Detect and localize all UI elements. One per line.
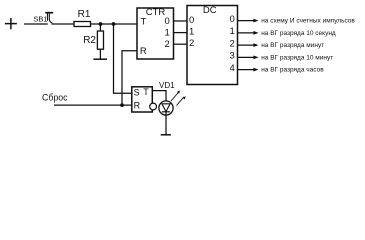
resistor R2: [97, 31, 103, 49]
LED VD1: [159, 101, 173, 115]
net label to VG of 10 seconds digit: [261, 30, 336, 37]
label T of trigger: [143, 87, 149, 97]
wire junction down to trigger S input: [114, 24, 133, 93]
net label to VG of hours digit: [261, 67, 324, 74]
svg-text:CTR: CTR: [146, 7, 166, 18]
svg-text:на схему И счетных импульсов: на схему И счетных импульсов: [261, 18, 355, 25]
wire R1 to CTR T input: [91, 23, 138, 25]
pin T label: [141, 17, 147, 28]
counter CTR block: [137, 8, 174, 59]
decoder DC block: [187, 6, 238, 85]
label CTR: [146, 7, 166, 18]
svg-text:2: 2: [230, 38, 235, 49]
net label to VG of minutes digit: [261, 42, 324, 49]
svg-text:3: 3: [230, 51, 235, 62]
output arrow 4: [238, 68, 259, 72]
power + terminal: [5, 18, 17, 29]
switch SB1: [45, 13, 53, 23]
svg-text:S: S: [134, 88, 140, 98]
svg-text:Сброс: Сброс: [42, 92, 68, 102]
svg-text:R: R: [134, 101, 141, 111]
junction node on reset line: [120, 103, 124, 107]
svg-text:T: T: [143, 87, 149, 97]
svg-text:DC: DC: [203, 5, 217, 16]
svg-text:R1: R1: [78, 9, 91, 20]
wire junction to R2: [99, 24, 101, 31]
svg-text:2: 2: [165, 39, 170, 50]
wire SB1 to R1: [52, 23, 75, 25]
svg-text:2: 2: [189, 38, 194, 49]
svg-text:на ВГ разряда минут: на ВГ разряда минут: [261, 42, 324, 49]
svg-text:0: 0: [165, 16, 170, 27]
svg-text:SB1: SB1: [33, 14, 47, 23]
resistor R1: [74, 22, 91, 27]
LED emission arrow 2: [177, 96, 186, 105]
label R2: [83, 35, 96, 46]
ground bar under R2: [93, 58, 107, 60]
svg-text:1: 1: [230, 26, 235, 37]
net Сброс wire: [54, 104, 132, 106]
wire R2 to ground: [99, 49, 101, 59]
output arrow 1: [238, 31, 259, 35]
svg-text:R: R: [140, 46, 147, 57]
junction node at trigger branch: [112, 22, 116, 26]
svg-text:4: 4: [230, 63, 235, 74]
label DC: [203, 5, 217, 16]
wire CTR out2 to DC in2: [174, 43, 188, 45]
wire CTR out1 to DC in1: [174, 32, 188, 34]
trigger T flip-flop block: [132, 87, 153, 112]
net label to VG of 10 minutes digit: [261, 54, 333, 61]
ground bar under LED: [161, 134, 171, 136]
wire trigger output to LED: [152, 91, 166, 104]
output arrow 0: [238, 19, 259, 23]
wire from + to SB1: [24, 23, 48, 25]
pin S label: [134, 88, 140, 98]
svg-text:1: 1: [165, 27, 170, 38]
svg-text:на ВГ разряда 10 минут: на ВГ разряда 10 минут: [261, 54, 333, 61]
svg-text:T: T: [141, 17, 147, 28]
output arrow 3: [238, 55, 259, 59]
svg-text:VD1: VD1: [159, 81, 175, 90]
DC output pin labels 0 1 2 3 4: [230, 14, 235, 74]
wire CTR R input to reset line: [122, 51, 137, 105]
svg-text:R2: R2: [83, 35, 96, 46]
junction node at R2 branch: [99, 22, 103, 26]
label VD1: [159, 81, 175, 90]
output arrow 2: [238, 43, 259, 47]
svg-text:на ВГ разряда часов: на ВГ разряда часов: [261, 67, 324, 74]
label R1: [78, 9, 91, 20]
net label to AND circuit of counting pulses: [261, 18, 355, 25]
wire LED cathode to ground: [165, 112, 167, 135]
label Сброс: [42, 92, 68, 102]
svg-text:1: 1: [189, 26, 194, 37]
DC input pin labels 0 1 2: [189, 15, 194, 49]
CTR output pin labels 0 1 2: [165, 16, 170, 50]
wire CTR out0 to DC in0: [174, 20, 188, 22]
pin R label: [140, 46, 147, 57]
svg-text:0: 0: [189, 15, 194, 26]
label SB1: [33, 14, 47, 23]
svg-text:0: 0: [230, 14, 235, 25]
pin R label of trigger: [134, 101, 141, 111]
svg-text:на ВГ разряда 10 секунд: на ВГ разряда 10 секунд: [261, 30, 336, 37]
inverted output circle of trigger: [150, 103, 157, 110]
LED emission arrow 1: [171, 91, 180, 102]
